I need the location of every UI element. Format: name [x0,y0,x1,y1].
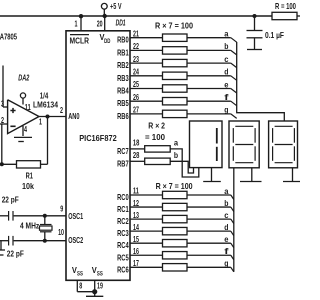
svg-text:27: 27 [133,105,139,115]
svg-text:18: 18 [133,138,140,148]
svg-text:AN0: AN0 [68,111,80,121]
svg-text:c: c [224,54,228,64]
svg-text:PIC16F872: PIC16F872 [79,133,117,143]
svg-text:RC6: RC6 [117,264,129,274]
svg-text:DD: DD [104,39,111,45]
svg-text:19: 19 [97,280,103,290]
svg-text:10: 10 [58,227,64,237]
svg-text:15: 15 [133,234,139,244]
svg-text:LM6134: LM6134 [33,100,58,110]
svg-text:OSC1: OSC1 [68,211,83,221]
svg-text:16: 16 [133,246,139,256]
svg-text:MCLR: MCLR [70,36,90,46]
svg-text:RB6: RB6 [117,111,129,121]
svg-text:SS: SS [77,272,83,278]
svg-text:RB7: RB7 [117,158,129,168]
svg-text:10k: 10k [22,181,34,191]
svg-text:e: e [224,234,228,244]
svg-text:RC4: RC4 [117,240,129,250]
svg-text:a: a [224,29,228,39]
svg-text:RC1: RC1 [117,204,129,214]
svg-text:13: 13 [133,210,139,220]
svg-text:KA7805: KA7805 [0,32,17,42]
svg-text:4 MHz: 4 MHz [20,221,39,231]
svg-text:9: 9 [60,203,63,213]
svg-text:DA2: DA2 [18,73,29,83]
svg-text:20: 20 [97,19,103,29]
svg-text:= 100: = 100 [145,132,165,142]
svg-text:28: 28 [133,150,140,160]
svg-text:RB1: RB1 [117,47,129,57]
svg-text:24: 24 [133,67,139,77]
svg-text:d: d [224,222,228,232]
svg-text:+5 V: +5 V [110,1,122,11]
svg-text:3: 3 [1,99,4,109]
svg-text:12: 12 [133,198,139,208]
svg-text:R1: R1 [26,170,34,180]
svg-text:8: 8 [79,280,82,290]
svg-text:0.1 µF: 0.1 µF [265,30,284,40]
svg-text:26: 26 [133,92,139,102]
svg-text:OSC2: OSC2 [68,235,83,245]
svg-text:RB5: RB5 [117,98,129,108]
svg-text:25: 25 [133,79,139,89]
svg-text:23: 23 [133,54,139,64]
svg-text:1: 1 [39,117,42,127]
svg-text:RC5: RC5 [117,252,129,262]
svg-text:RC7: RC7 [117,146,129,156]
svg-text:RB4: RB4 [117,86,129,96]
svg-text:b: b [224,198,228,208]
svg-text:b: b [224,41,228,51]
svg-text:4: 4 [24,124,27,134]
svg-text:R × 7 = 100: R × 7 = 100 [155,21,193,31]
svg-text:1: 1 [75,19,78,29]
svg-text:c: c [224,210,228,220]
svg-text:b: b [174,150,178,160]
svg-text:g: g [224,105,228,115]
svg-text:R × 7 = 100: R × 7 = 100 [156,181,193,191]
svg-text:21: 21 [133,28,139,38]
svg-text:g: g [224,258,228,268]
svg-text:11: 11 [133,186,139,196]
svg-text:SS: SS [97,272,103,278]
svg-text:a: a [174,138,178,148]
svg-text:RC0: RC0 [117,192,129,202]
svg-text:R × 2: R × 2 [148,120,165,130]
svg-text:17: 17 [133,258,139,268]
svg-text:f: f [224,92,228,102]
svg-text:RC3: RC3 [117,228,129,238]
svg-text:a: a [224,186,228,196]
svg-text:DD1: DD1 [116,18,126,28]
svg-text:14: 14 [133,222,139,232]
svg-text:22 pF: 22 pF [7,249,24,259]
svg-text:22 pF: 22 pF [2,195,19,205]
svg-text:e: e [224,79,228,89]
svg-text:RC2: RC2 [117,216,129,226]
svg-text:f: f [224,246,228,256]
svg-text:R = 100: R = 100 [275,1,296,11]
svg-text:RB0: RB0 [117,35,129,45]
svg-text:RB3: RB3 [117,73,129,83]
svg-text:11: 11 [25,102,31,112]
svg-text:2: 2 [60,105,63,115]
svg-text:d: d [224,67,228,77]
svg-text:2: 2 [1,115,4,125]
svg-text:RB2: RB2 [117,60,129,70]
svg-text:22: 22 [133,41,139,51]
